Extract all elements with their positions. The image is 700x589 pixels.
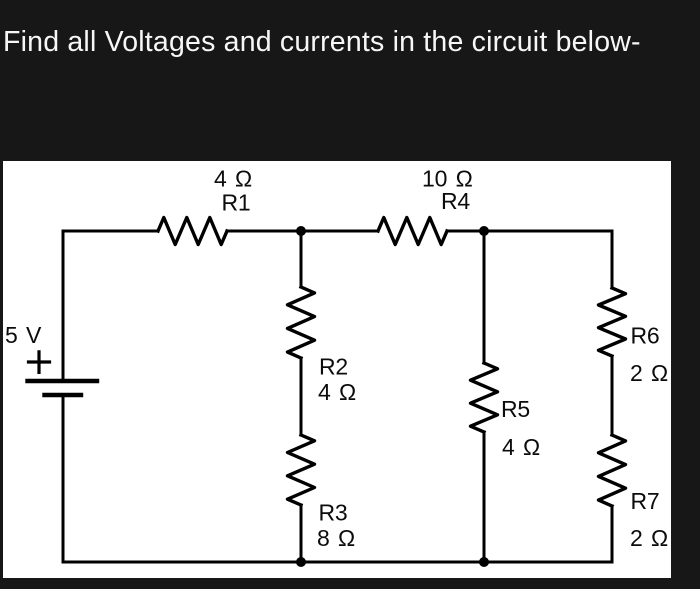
svg-text:R4: R4 [441, 188, 470, 214]
battery V1 positive plate [28, 379, 98, 383]
resistor R3 [288, 435, 315, 505]
resistor R2 [288, 287, 315, 358]
wire top horizontal left segment [63, 230, 158, 233]
wire bottom horizontal [63, 561, 612, 564]
node C (bottom middle junction) [296, 557, 306, 567]
svg-text:R7: R7 [631, 488, 660, 514]
wire left vertical bottom (battery - to bottom-left corner) [62, 395, 65, 562]
white schematic panel [3, 161, 671, 578]
svg-text:R3: R3 [319, 500, 348, 526]
svg-text:4 Ω: 4 Ω [318, 379, 356, 405]
title text [3, 28, 641, 57]
svg-text:4 Ω: 4 Ω [214, 166, 252, 192]
svg-text:4 Ω: 4 Ω [502, 434, 540, 460]
resistor R4 [378, 218, 447, 245]
node D (bottom R5 junction) [479, 557, 489, 567]
wire left vertical top (battery + to top-left corner) [62, 231, 65, 381]
resistor R6 [599, 288, 626, 356]
svg-text:2 Ω: 2 Ω [630, 525, 668, 551]
resistor R5 [471, 363, 498, 432]
wire middle branch upper [300, 231, 303, 287]
wire middle branch lower [300, 505, 303, 562]
wire right vertical upper [611, 231, 614, 288]
svg-text:R5: R5 [501, 396, 530, 422]
svg-text:R6: R6 [631, 323, 660, 349]
svg-text:5 V: 5 V [5, 322, 42, 348]
wire right vertical lower [611, 506, 614, 562]
svg-text:2 Ω: 2 Ω [630, 360, 668, 386]
svg-text:R1: R1 [222, 190, 251, 216]
wire top horizontal middle segment [227, 230, 378, 233]
svg-text:R2: R2 [319, 354, 348, 380]
resistor R1 [158, 218, 227, 245]
resistor R7 [599, 435, 626, 506]
node A (top middle junction) [296, 226, 306, 236]
battery plus sign [29, 352, 50, 373]
svg-text:8 Ω: 8 Ω [317, 525, 355, 551]
node B (top R5 junction) [479, 226, 489, 236]
wire middle branch between R2 and R3 [300, 358, 303, 435]
battery V1 negative plate [45, 393, 82, 397]
wire top horizontal right segment [447, 230, 612, 233]
wire R5 branch upper [483, 231, 486, 363]
wire right vertical middle [611, 356, 614, 435]
wire R5 branch lower [483, 432, 486, 562]
